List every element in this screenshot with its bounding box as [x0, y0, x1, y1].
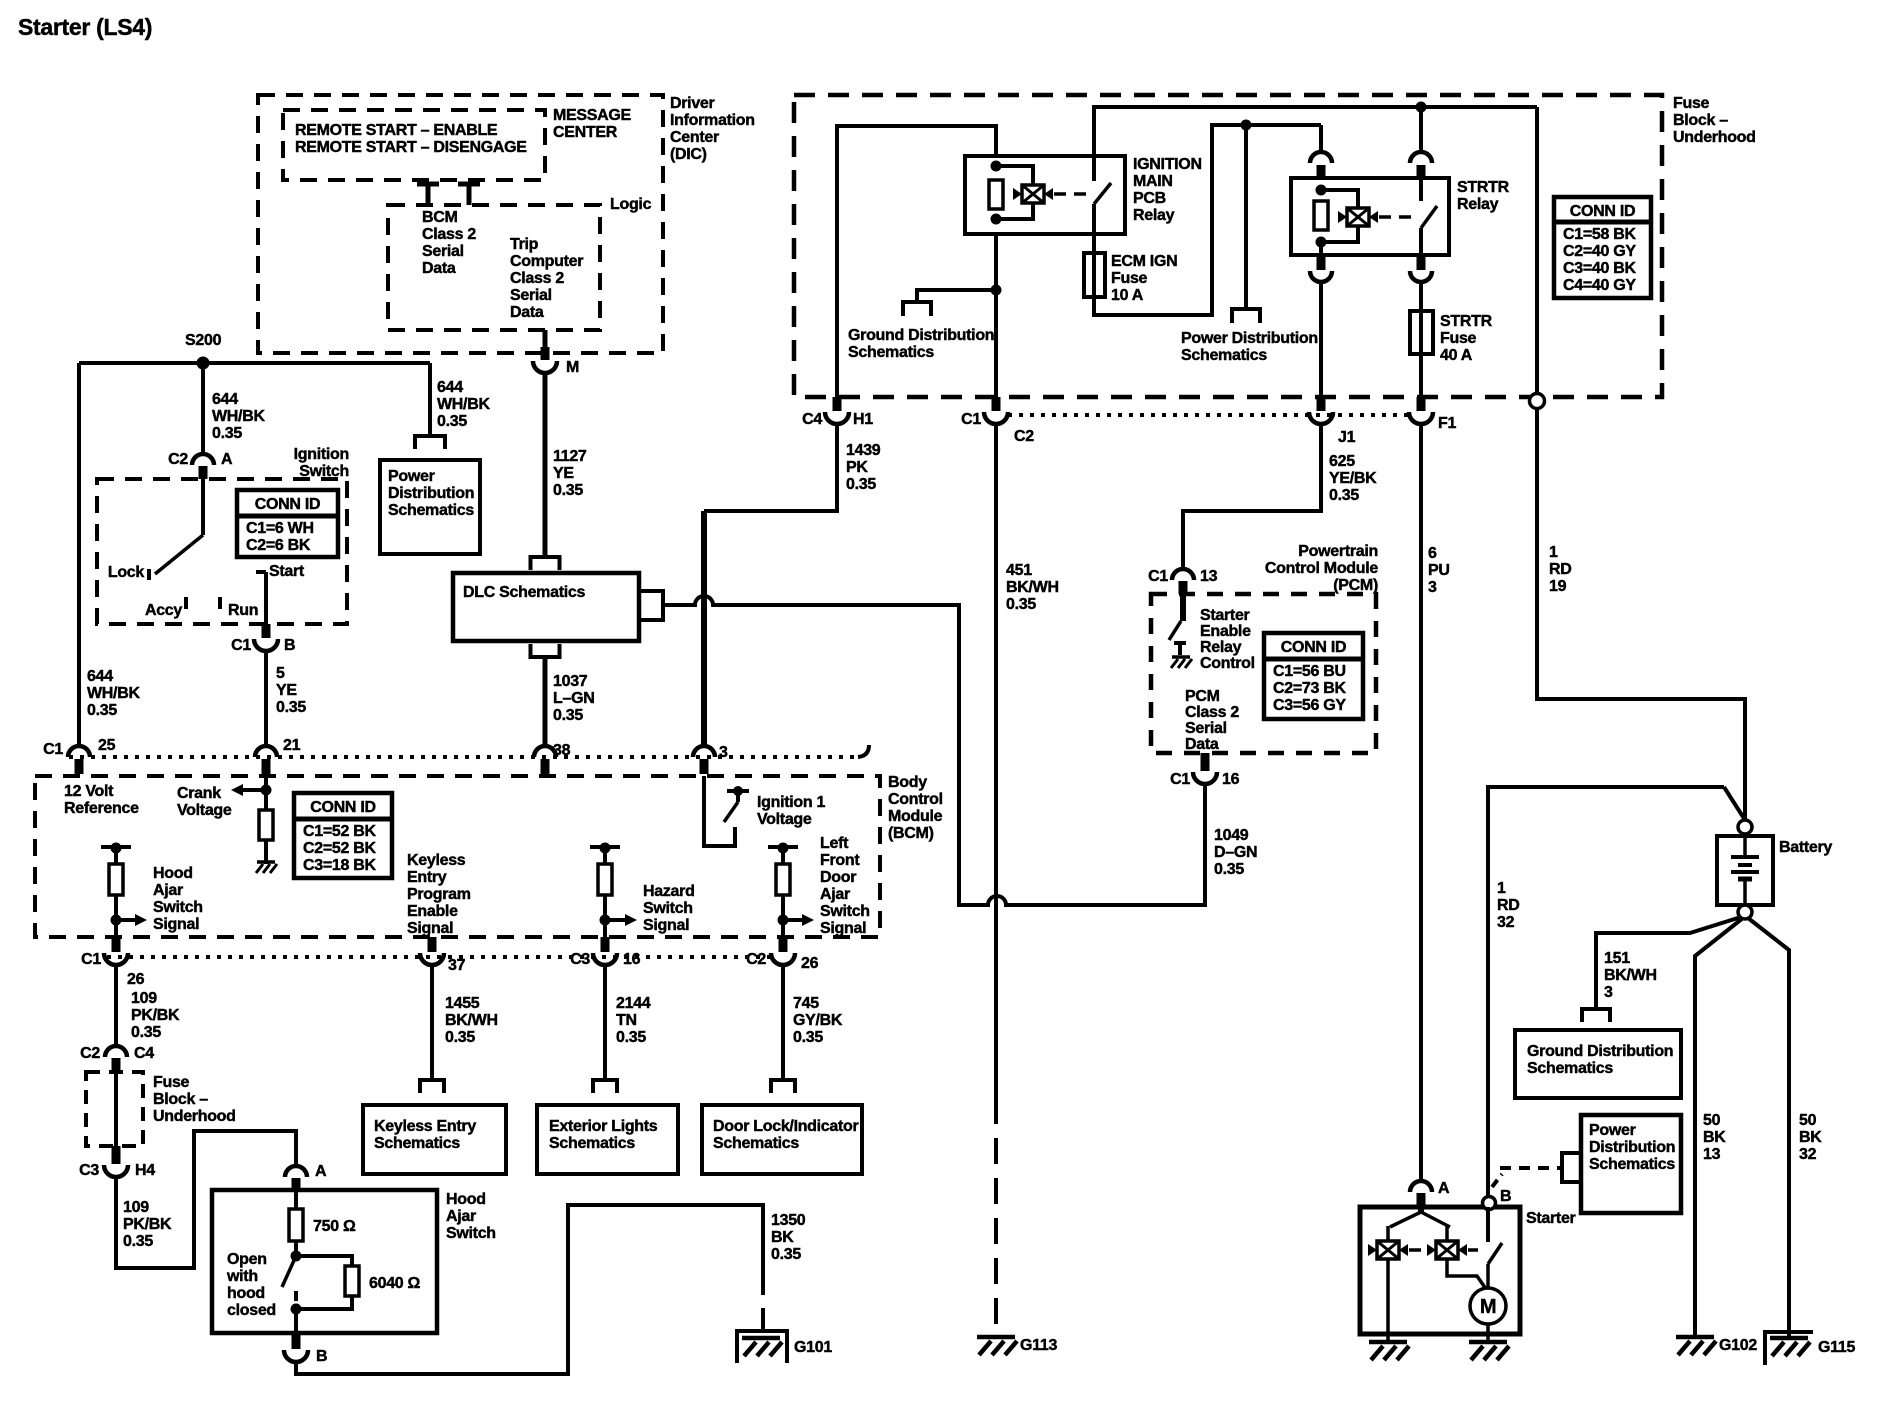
svg-text:PK/BK: PK/BK: [131, 1007, 180, 1024]
svg-text:BCM: BCM: [422, 209, 458, 226]
svg-text:BK/WH: BK/WH: [445, 1012, 498, 1029]
svg-text:Underhood: Underhood: [153, 1108, 236, 1125]
connector A starter: [1410, 1181, 1432, 1192]
svg-text:Voltage: Voltage: [177, 802, 232, 819]
svg-text:Keyless Entry: Keyless Entry: [374, 1118, 476, 1135]
svg-text:0.35: 0.35: [793, 1029, 823, 1046]
svg-text:1127: 1127: [553, 448, 587, 465]
svg-text:D–GN: D–GN: [1214, 844, 1257, 861]
svg-text:Fuse: Fuse: [1673, 95, 1710, 112]
resistor crank voltage: [259, 810, 273, 840]
connector C2 26: [779, 937, 788, 952]
svg-text:Ignition: Ignition: [294, 446, 349, 463]
svg-text:32: 32: [1497, 914, 1515, 931]
fuse block underhood small box: [86, 1072, 143, 1146]
ignition switch box: [97, 479, 347, 624]
wire strtr coil to J1: [1319, 283, 1323, 397]
strtr relay switch: [1419, 178, 1423, 201]
svg-text:12 Volt: 12 Volt: [64, 783, 114, 800]
connector strtr switch bottom: [1417, 257, 1426, 270]
svg-text:10 A: 10 A: [1111, 287, 1144, 304]
hood switch blade: [294, 1241, 298, 1256]
ground G101: [737, 1331, 787, 1363]
svg-text:Schematics: Schematics: [1527, 1060, 1613, 1077]
svg-text:C3=56 GY: C3=56 GY: [1273, 697, 1346, 714]
ground G102: [1676, 1335, 1714, 1340]
svg-text:1350: 1350: [771, 1212, 806, 1229]
svg-text:Control: Control: [1200, 655, 1255, 672]
svg-text:0.35: 0.35: [1006, 596, 1036, 613]
conn id box BCM: [294, 793, 392, 878]
dashed link starter to power distribution: [1492, 1174, 1502, 1187]
svg-text:RD: RD: [1549, 561, 1572, 578]
svg-text:Enable: Enable: [1200, 623, 1251, 640]
connector strtr switch top: [1410, 152, 1432, 163]
svg-text:Data: Data: [422, 260, 456, 277]
svg-text:Voltage: Voltage: [757, 811, 812, 828]
svg-text:Ignition 1: Ignition 1: [757, 794, 826, 811]
svg-text:Schematics: Schematics: [549, 1135, 635, 1152]
svg-text:C2: C2: [168, 451, 188, 468]
svg-text:0.35: 0.35: [123, 1233, 153, 1250]
junction bus strtr: [1416, 102, 1427, 113]
hood ajar branch: [101, 845, 131, 849]
svg-text:WH/BK: WH/BK: [437, 396, 490, 413]
svg-text:Fuse: Fuse: [1440, 330, 1477, 347]
svg-text:1: 1: [1549, 544, 1558, 561]
stub message-to-logic right: [458, 182, 480, 187]
svg-text:C3: C3: [570, 951, 590, 968]
svg-text:1049: 1049: [1214, 827, 1249, 844]
svg-text:26: 26: [127, 971, 145, 988]
connector C1 C2 fuse block: [992, 397, 1001, 411]
ground starter motor: [1469, 1340, 1507, 1345]
svg-text:Distribution: Distribution: [1589, 1139, 1675, 1156]
svg-text:TN: TN: [616, 1012, 637, 1029]
svg-text:WH/BK: WH/BK: [212, 408, 265, 425]
svg-text:Reference: Reference: [64, 800, 139, 817]
svg-text:C2=73 BK: C2=73 BK: [1273, 680, 1346, 697]
connector C1 B: [262, 624, 271, 638]
connector 21: [255, 746, 277, 757]
svg-text:BK: BK: [1703, 1129, 1726, 1146]
wire ignition relay coil low: [994, 234, 998, 397]
svg-text:2144: 2144: [616, 995, 651, 1012]
svg-text:(PCM): (PCM): [1333, 577, 1378, 594]
grommet circle fuse block: [1530, 394, 1545, 409]
svg-text:with: with: [226, 1268, 258, 1285]
svg-text:Computer: Computer: [510, 253, 583, 270]
stub message-to-logic left: [417, 182, 439, 187]
connector strtr coil top: [1319, 125, 1323, 152]
svg-text:Center: Center: [670, 129, 719, 146]
svg-text:Switch: Switch: [643, 900, 693, 917]
svg-text:21: 21: [283, 737, 301, 754]
svg-text:C1=52 BK: C1=52 BK: [303, 823, 376, 840]
svg-text:C1=56 BU: C1=56 BU: [1273, 663, 1346, 680]
svg-text:38: 38: [553, 742, 571, 759]
svg-text:Entry: Entry: [407, 869, 447, 886]
conn id box PCM: [1264, 633, 1363, 719]
connector C2 A: [192, 454, 214, 465]
svg-text:Front: Front: [820, 852, 860, 869]
svg-text:19: 19: [1549, 578, 1567, 595]
svg-text:40 A: 40 A: [1440, 347, 1473, 364]
svg-text:C4: C4: [134, 1045, 154, 1062]
terminal B starter: [1483, 1197, 1496, 1210]
bracket exterior lights: [593, 1080, 617, 1093]
svg-text:A: A: [315, 1163, 327, 1180]
wire 745 GY/BK: [781, 965, 785, 1080]
wire logic to M: [543, 330, 548, 347]
svg-text:Fuse: Fuse: [153, 1074, 190, 1091]
svg-text:Powertrain: Powertrain: [1298, 543, 1378, 560]
svg-text:32: 32: [1799, 1146, 1817, 1163]
svg-text:Door Lock/Indicator: Door Lock/Indicator: [713, 1118, 858, 1135]
svg-text:C4=40 GY: C4=40 GY: [1563, 277, 1636, 294]
connector J1: [1317, 397, 1326, 411]
svg-text:Enable: Enable: [407, 903, 458, 920]
contact Accy: [184, 597, 188, 609]
resistor 750: [294, 1190, 298, 1209]
box Power Distribution Schematics: [380, 460, 480, 554]
svg-text:PCB: PCB: [1133, 190, 1166, 207]
svg-text:Distribution: Distribution: [388, 485, 474, 502]
svg-text:Hazard: Hazard: [643, 883, 695, 900]
svg-text:YE/BK: YE/BK: [1329, 470, 1377, 487]
svg-text:REMOTE START – DISENGAGE: REMOTE START – DISENGAGE: [295, 139, 527, 156]
svg-text:Schematics: Schematics: [713, 1135, 799, 1152]
strtr relay coil: [1316, 185, 1327, 196]
svg-text:C1: C1: [1148, 568, 1168, 585]
svg-text:Accy: Accy: [145, 602, 182, 619]
svg-text:Ajar: Ajar: [446, 1208, 476, 1225]
svg-text:3: 3: [1428, 579, 1437, 596]
svg-text:Logic: Logic: [610, 196, 652, 213]
svg-text:Program: Program: [407, 886, 471, 903]
junction power distribution branch: [1241, 120, 1252, 131]
starter grounds wires: [1386, 1259, 1390, 1342]
svg-text:STRTR: STRTR: [1457, 179, 1510, 196]
svg-text:Schematics: Schematics: [1589, 1156, 1675, 1173]
wire 5 YE: [264, 652, 268, 746]
svg-text:13: 13: [1200, 568, 1218, 585]
bracket DLC top: [531, 557, 560, 570]
svg-text:1455: 1455: [445, 995, 480, 1012]
svg-text:PK: PK: [846, 459, 868, 476]
svg-text:0.35: 0.35: [437, 413, 467, 430]
connector C1 13: [1172, 569, 1194, 580]
svg-text:Class 2: Class 2: [1185, 704, 1239, 721]
svg-text:Signal: Signal: [153, 916, 199, 933]
starter enable relay switch: [1180, 594, 1186, 621]
svg-text:Power: Power: [388, 468, 435, 485]
svg-text:Signal: Signal: [407, 920, 453, 937]
wire 50 BK 32: [1748, 918, 1789, 1337]
fuse block underhood box: [794, 95, 1662, 397]
contact Start: [256, 570, 266, 574]
wire strtr switch to fuse: [1419, 283, 1423, 311]
svg-text:Driver: Driver: [670, 95, 715, 112]
connector 25: [68, 746, 90, 757]
svg-text:625: 625: [1329, 453, 1355, 470]
svg-text:Switch: Switch: [153, 899, 203, 916]
svg-text:Serial: Serial: [422, 243, 464, 260]
svg-text:Signal: Signal: [820, 920, 866, 937]
svg-text:C1: C1: [43, 741, 63, 758]
wire M to DLC 1127 YE: [543, 373, 548, 557]
svg-text:STRTR: STRTR: [1440, 313, 1493, 330]
svg-text:H1: H1: [853, 411, 873, 428]
svg-text:13: 13: [1703, 1146, 1721, 1163]
svg-text:Serial: Serial: [1185, 720, 1227, 737]
svg-text:YE: YE: [553, 465, 574, 482]
wire 6 PU: [1419, 424, 1423, 1181]
svg-text:Signal: Signal: [643, 917, 689, 934]
strtr relay box: [1291, 178, 1449, 255]
conn id box ignition switch: [237, 490, 338, 557]
starter solenoid branches: [1418, 1207, 1424, 1214]
svg-text:Relay: Relay: [1457, 196, 1499, 213]
PCM box: [1151, 594, 1376, 753]
svg-text:16: 16: [623, 951, 641, 968]
ignition 1 voltage switch: [704, 776, 735, 846]
wire 1350 BK: [296, 1205, 763, 1374]
svg-text:ECM IGN: ECM IGN: [1111, 253, 1177, 270]
svg-text:5: 5: [276, 665, 285, 682]
svg-text:BK: BK: [1799, 1129, 1822, 1146]
svg-text:Hood: Hood: [153, 865, 193, 882]
svg-text:C2: C2: [80, 1045, 100, 1062]
contact Lock: [147, 569, 151, 580]
svg-text:109: 109: [131, 990, 157, 1007]
svg-text:Relay: Relay: [1133, 207, 1175, 224]
svg-text:GY/BK: GY/BK: [793, 1012, 843, 1029]
svg-text:C3=18 BK: C3=18 BK: [303, 857, 376, 874]
box Keyless Entry Schematics: [363, 1105, 506, 1174]
svg-text:C2=6 BK: C2=6 BK: [246, 537, 311, 554]
svg-text:REMOTE START – ENABLE: REMOTE START – ENABLE: [295, 122, 498, 139]
svg-text:H4: H4: [135, 1162, 155, 1179]
svg-text:Ground Distribution: Ground Distribution: [848, 327, 994, 344]
svg-text:C4: C4: [802, 411, 822, 428]
svg-text:C1: C1: [231, 637, 251, 654]
svg-text:Switch: Switch: [299, 463, 349, 480]
wire 1439 PK: [704, 424, 837, 511]
dotted harness line fuse block: [1008, 413, 1410, 417]
bracket ground distribution fuse block: [903, 302, 931, 316]
svg-text:M: M: [566, 359, 579, 376]
svg-text:Power: Power: [1589, 1122, 1636, 1139]
wire to ground distribution bracket: [917, 290, 996, 302]
svg-text:0.35: 0.35: [212, 425, 242, 442]
svg-text:Power Distribution: Power Distribution: [1181, 330, 1318, 347]
wire S200 horizontal: [79, 361, 430, 365]
svg-text:0.35: 0.35: [1329, 487, 1359, 504]
svg-text:CONN ID: CONN ID: [1281, 639, 1346, 656]
wire relay to ECM fuse: [1092, 234, 1096, 253]
svg-text:C1=6 WH: C1=6 WH: [246, 520, 314, 537]
svg-text:C1: C1: [961, 411, 981, 428]
svg-text:Starter (LS4): Starter (LS4): [18, 14, 152, 40]
crank voltage wire: [264, 776, 268, 864]
svg-text:745: 745: [793, 995, 819, 1012]
svg-text:C3=40 BK: C3=40 BK: [1563, 260, 1636, 277]
box Power Distribution Schematics starter: [1581, 1115, 1681, 1213]
wire 2144 TN: [603, 965, 607, 1080]
serial data wire DLC to PCM: [663, 596, 1205, 905]
svg-text:0.35: 0.35: [276, 699, 306, 716]
svg-text:Keyless: Keyless: [407, 852, 466, 869]
svg-text:1: 1: [1497, 880, 1506, 897]
svg-text:BK/WH: BK/WH: [1604, 967, 1657, 984]
crank voltage arrow: [261, 785, 272, 796]
fuse STRTR 40A: [1419, 311, 1423, 354]
svg-text:J1: J1: [1338, 429, 1356, 446]
svg-text:Data: Data: [510, 304, 544, 321]
wire 1 RD 32: [1488, 787, 1724, 1196]
svg-text:Data: Data: [1185, 736, 1219, 753]
switch blade ignition: [155, 535, 203, 574]
svg-text:Ajar: Ajar: [153, 882, 183, 899]
dotted harness line BCM top: [69, 755, 858, 759]
svg-text:A: A: [1438, 1180, 1450, 1197]
svg-text:451: 451: [1006, 562, 1032, 579]
svg-text:Exterior Lights: Exterior Lights: [549, 1118, 658, 1135]
svg-text:6: 6: [1428, 545, 1437, 562]
svg-text:CONN ID: CONN ID: [1570, 203, 1635, 220]
svg-text:PK/BK: PK/BK: [123, 1216, 172, 1233]
svg-text:WH/BK: WH/BK: [87, 685, 140, 702]
hazard branch: [590, 845, 620, 849]
svg-text:6040 Ω: 6040 Ω: [369, 1275, 421, 1292]
svg-text:RD: RD: [1497, 897, 1520, 914]
svg-text:(DIC): (DIC): [670, 146, 707, 163]
svg-text:Block –: Block –: [153, 1091, 208, 1108]
connector C3 H4: [112, 1146, 121, 1164]
bracket DLC bottom: [531, 644, 560, 657]
box DLC Schematics: [453, 573, 639, 641]
svg-text:A: A: [221, 451, 233, 468]
svg-text:Hood: Hood: [446, 1191, 486, 1208]
starter coil 1: [1377, 1241, 1399, 1259]
bracket power distribution fuse block: [1232, 309, 1260, 323]
resistor 6040: [296, 1256, 352, 1266]
starter linkage dashes: [1409, 1248, 1421, 1252]
motor M: [1470, 1288, 1506, 1324]
wire 644 WH/BK right branch: [428, 363, 432, 436]
svg-text:L–GN: L–GN: [553, 690, 594, 707]
ignition relay coil: [991, 161, 1002, 172]
svg-text:Schematics: Schematics: [388, 502, 474, 519]
connector 38: [534, 746, 556, 757]
svg-text:151: 151: [1604, 950, 1630, 967]
wire fuse to strtr coil: [1094, 125, 1321, 315]
svg-text:0.35: 0.35: [87, 702, 117, 719]
svg-text:B: B: [284, 637, 295, 654]
svg-text:Battery: Battery: [1779, 839, 1832, 856]
svg-text:CENTER: CENTER: [553, 124, 618, 141]
svg-text:644: 644: [437, 379, 463, 396]
svg-text:G101: G101: [794, 1339, 832, 1356]
svg-text:Underhood: Underhood: [1673, 129, 1756, 146]
starter switch: [1486, 1207, 1490, 1242]
junction S200: [197, 357, 210, 370]
connector A hood ajar: [285, 1166, 307, 1177]
svg-text:S200: S200: [185, 332, 222, 349]
svg-text:Body: Body: [888, 774, 927, 791]
svg-text:Door: Door: [820, 869, 856, 886]
wire 644 WH/BK left: [77, 363, 81, 746]
ground G113: [977, 1335, 1015, 1340]
connector C1 16: [1201, 753, 1210, 771]
svg-text:Class 2: Class 2: [422, 226, 476, 243]
svg-text:BK/WH: BK/WH: [1006, 579, 1059, 596]
bracket ground distribution right: [1582, 1009, 1610, 1022]
svg-text:0.35: 0.35: [445, 1029, 475, 1046]
svg-text:50: 50: [1799, 1112, 1817, 1129]
svg-text:MAIN: MAIN: [1133, 173, 1173, 190]
bracket power distribution starter: [1562, 1153, 1581, 1182]
svg-text:B: B: [316, 1348, 327, 1365]
svg-text:YE: YE: [276, 682, 297, 699]
connector strtr coil bottom: [1319, 242, 1323, 257]
svg-text:Serial: Serial: [510, 287, 552, 304]
wire 109 PK/BK upper: [114, 965, 118, 1045]
svg-text:0.35: 0.35: [771, 1246, 801, 1263]
svg-text:PU: PU: [1428, 562, 1450, 579]
wire 1 RD 19: [1537, 409, 1745, 820]
svg-text:750 Ω: 750 Ω: [313, 1218, 356, 1235]
DIC box Driver Information Center: [258, 95, 663, 353]
svg-text:109: 109: [123, 1199, 149, 1216]
wire bus right down: [1535, 107, 1539, 394]
svg-text:50: 50: [1703, 1112, 1721, 1129]
battery: [1738, 820, 1752, 834]
svg-text:MESSAGE: MESSAGE: [553, 107, 632, 124]
svg-text:Schematics: Schematics: [1181, 347, 1267, 364]
connector C3 16: [601, 937, 610, 952]
svg-text:G102: G102: [1719, 1337, 1757, 1354]
svg-text:Open: Open: [227, 1251, 267, 1268]
svg-text:Information: Information: [670, 112, 755, 129]
connector M: [541, 347, 550, 360]
svg-text:CONN ID: CONN ID: [310, 799, 375, 816]
logic box: [388, 205, 600, 330]
svg-text:Starter: Starter: [1526, 1210, 1576, 1227]
svg-text:BK: BK: [771, 1229, 794, 1246]
box Door Lock Indicator Schematics: [702, 1105, 862, 1174]
svg-text:G113: G113: [1020, 1337, 1057, 1354]
BCM box Body Control Module: [35, 776, 880, 937]
connector B hood ajar: [294, 1309, 298, 1333]
svg-text:1037: 1037: [553, 673, 588, 690]
ground crank voltage internal: [257, 860, 275, 864]
fuse ECM IGN: [1092, 253, 1096, 297]
svg-text:0.35: 0.35: [1214, 861, 1244, 878]
wire 1455 BK/WH: [430, 965, 434, 1080]
wire ignition relay switch to bus: [1094, 107, 1537, 181]
svg-text:hood: hood: [227, 1285, 265, 1302]
svg-text:644: 644: [87, 668, 113, 685]
svg-text:C3: C3: [79, 1162, 99, 1179]
svg-text:C2: C2: [1014, 428, 1034, 445]
svg-text:C2=40 GY: C2=40 GY: [1563, 243, 1636, 260]
svg-text:CONN ID: CONN ID: [255, 496, 320, 513]
bracket power distribution: [415, 436, 445, 449]
svg-text:Schematics: Schematics: [848, 344, 934, 361]
svg-text:Run: Run: [228, 602, 258, 619]
